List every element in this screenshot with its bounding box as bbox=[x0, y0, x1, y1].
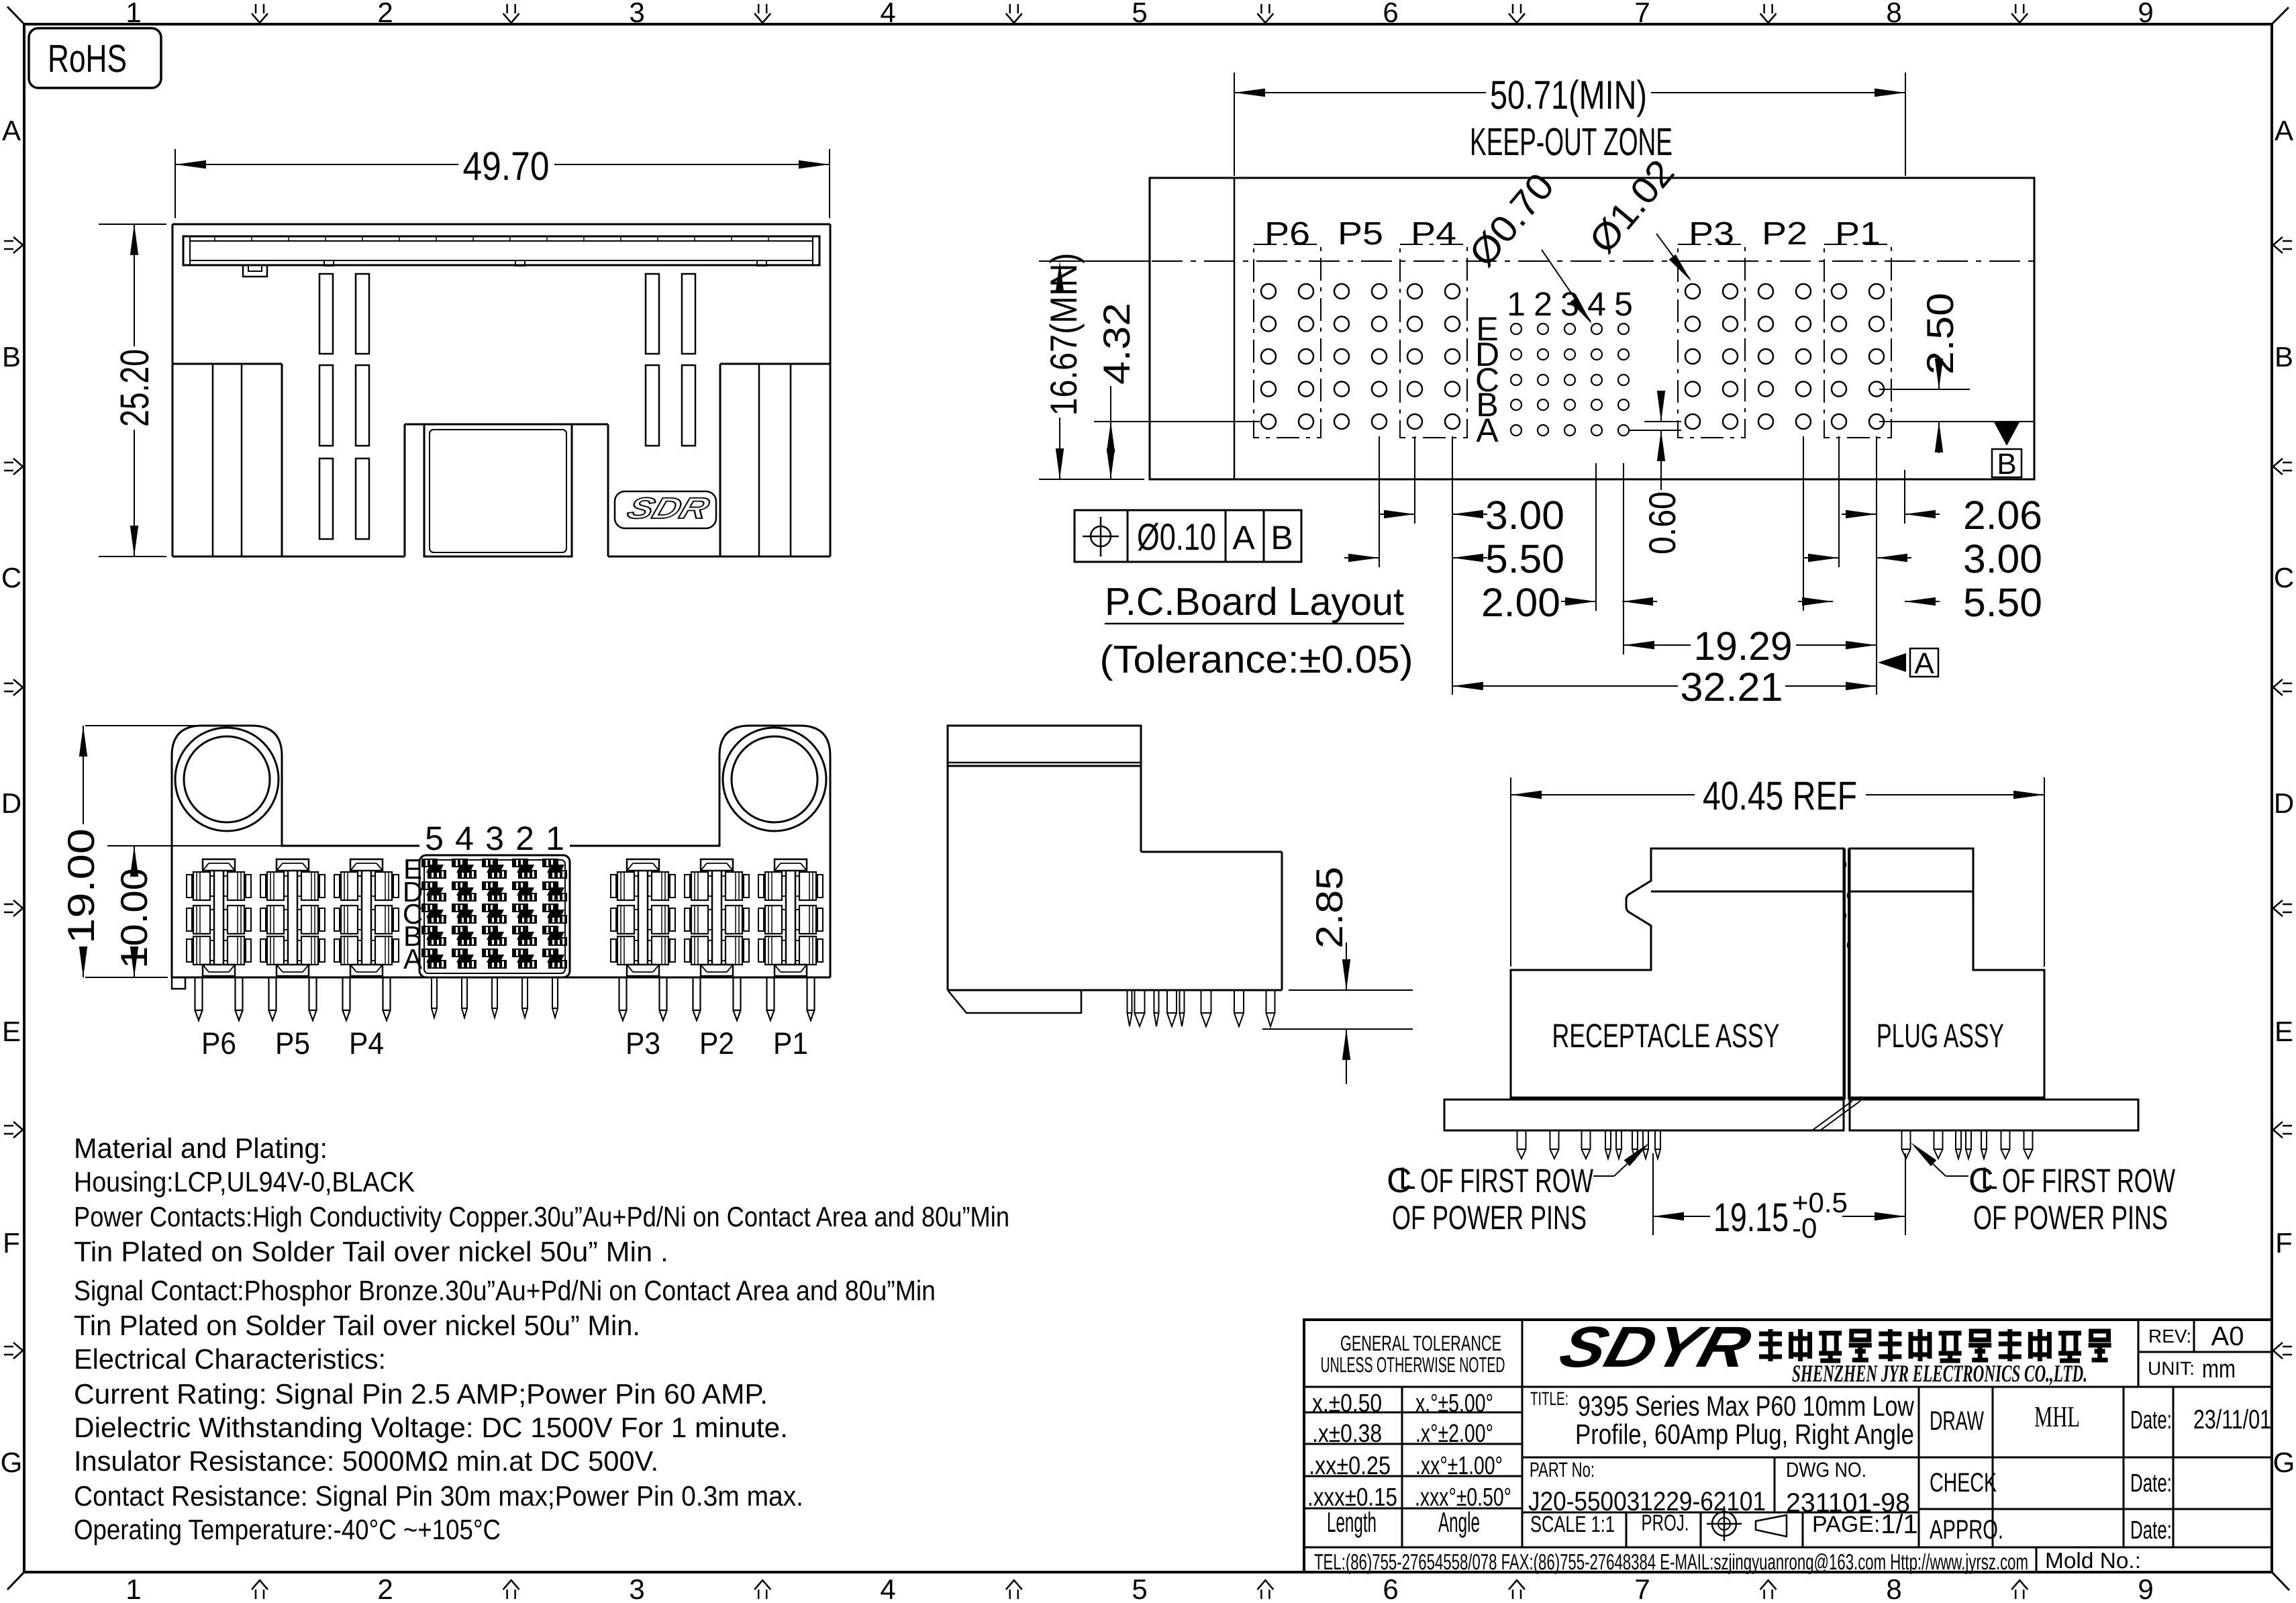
side view outline bbox=[948, 726, 1282, 1013]
svg-text:8: 8 bbox=[1886, 0, 1901, 28]
svg-text:OF FIRST ROW: OF FIRST ROW bbox=[1420, 1162, 1594, 1200]
svg-text:1: 1 bbox=[126, 1573, 141, 1603]
svg-text:5.50: 5.50 bbox=[1963, 580, 2042, 625]
svg-text:.x°±2.00°: .x°±2.00° bbox=[1415, 1420, 1493, 1448]
svg-text:23/11/01: 23/11/01 bbox=[2193, 1405, 2271, 1435]
PART No bbox=[1528, 1458, 1766, 1516]
side view pins bbox=[1128, 990, 1275, 1026]
svg-text:SCALE 1:1: SCALE 1:1 bbox=[1530, 1512, 1615, 1537]
dimension 2.85 bbox=[1262, 867, 1413, 1084]
svg-text:A: A bbox=[1476, 411, 1499, 449]
power pin group P6 holes bbox=[1254, 244, 1321, 438]
svg-text:P1: P1 bbox=[773, 1026, 808, 1061]
svg-text:PAGE:: PAGE: bbox=[1812, 1512, 1880, 1537]
svg-text:PROJ.: PROJ. bbox=[1642, 1510, 1689, 1536]
svg-text:REV:: REV: bbox=[2148, 1326, 2191, 1347]
power pin group P1 holes bbox=[1824, 244, 1891, 438]
svg-text:Insulator Resistance: 5000MΩ m: Insulator Resistance: 5000MΩ min.at DC 5… bbox=[74, 1445, 658, 1477]
svg-text:GENERAL TOLERANCE: GENERAL TOLERANCE bbox=[1340, 1331, 1501, 1355]
centerline of first row text left bbox=[1387, 1161, 1594, 1236]
svg-text:Date:: Date: bbox=[2130, 1406, 2172, 1435]
signal column labels 1-5 bbox=[1507, 285, 1633, 323]
svg-text:G: G bbox=[2273, 1447, 2295, 1478]
power pin group P2 holes bbox=[1758, 284, 1811, 429]
svg-text:4: 4 bbox=[880, 0, 895, 28]
svg-text:C: C bbox=[1, 562, 21, 593]
svg-text:1: 1 bbox=[546, 820, 564, 857]
svg-text:Housing:LCP,UL94V-0,BLACK: Housing:LCP,UL94V-0,BLACK bbox=[74, 1166, 415, 1198]
svg-text:Ø0.10: Ø0.10 bbox=[1137, 516, 1216, 558]
position tolerance feature control frame bbox=[1075, 510, 1301, 562]
dimension 40.45 REF bbox=[1511, 773, 2044, 967]
svg-text:P5: P5 bbox=[275, 1026, 310, 1061]
svg-text:2.06: 2.06 bbox=[1963, 493, 2042, 538]
svg-text:L: L bbox=[1399, 1161, 1416, 1196]
card-slot channel bar bbox=[183, 236, 819, 266]
svg-text:A0: A0 bbox=[2211, 1322, 2244, 1351]
svg-text:-0: -0 bbox=[1792, 1212, 1817, 1244]
svg-text:E: E bbox=[2275, 1016, 2293, 1047]
receptacle assy outline bbox=[1444, 848, 1844, 1130]
APPRO row bbox=[1930, 1515, 2172, 1545]
svg-text:Tin Plated on Solder Tail over: Tin Plated on Solder Tail over nickel 50… bbox=[74, 1236, 668, 1267]
svg-text:RECEPTACLE ASSY: RECEPTACLE ASSY bbox=[1552, 1017, 1780, 1055]
leader dia 1.02 bbox=[1581, 152, 1691, 281]
svg-text:L: L bbox=[1981, 1161, 1998, 1196]
svg-text:16.67(MIN): 16.67(MIN) bbox=[1042, 253, 1085, 416]
svg-text:2.85: 2.85 bbox=[1308, 867, 1350, 949]
svg-text:Electrical Characteristics:: Electrical Characteristics: bbox=[74, 1343, 386, 1375]
svg-text:B: B bbox=[2, 341, 21, 373]
svg-text:3: 3 bbox=[485, 820, 504, 857]
left mounting hole bbox=[175, 728, 279, 831]
svg-text:7: 7 bbox=[1634, 1573, 1650, 1603]
datum flag A bbox=[1878, 647, 1938, 680]
dimension 19.00 bbox=[60, 726, 201, 977]
TITLE bbox=[1530, 1388, 1915, 1450]
svg-text:Mold No.:: Mold No.: bbox=[2045, 1548, 2141, 1573]
centerline of first row text right bbox=[1968, 1161, 2176, 1236]
dimension 3.00 right bbox=[1804, 536, 2042, 581]
company name (CJK) bbox=[1759, 1329, 2111, 1361]
dimension 3.00 left bbox=[1380, 493, 1564, 538]
svg-text:E: E bbox=[2, 1016, 21, 1047]
leader left first row bbox=[1593, 1143, 1650, 1176]
svg-text:mm: mm bbox=[2202, 1355, 2236, 1383]
solder pins of P1 bbox=[767, 977, 815, 1020]
mating interface lines bbox=[1812, 848, 1860, 1130]
svg-text:P.C.Board Layout: P.C.Board Layout bbox=[1105, 580, 1404, 624]
dimension 5.50 right bbox=[1798, 580, 2042, 625]
extension line through zone bbox=[1234, 178, 1236, 479]
dimension 2.00 left bbox=[1481, 580, 1657, 625]
svg-text:2.50: 2.50 bbox=[1919, 293, 1961, 375]
svg-text:1/1: 1/1 bbox=[1881, 1510, 1918, 1539]
svg-text:B: B bbox=[1270, 519, 1293, 556]
svg-text:TEL:(86)755-27654558/078 FAX: TEL:(86)755-27654558/078 FAX:(86)755-276… bbox=[1314, 1549, 2028, 1574]
svg-text:OF POWER PINS: OF POWER PINS bbox=[1973, 1199, 2168, 1236]
svg-text:19.15: 19.15 bbox=[1713, 1195, 1789, 1240]
svg-text:DWG NO.: DWG NO. bbox=[1786, 1458, 1866, 1481]
extension lines below layout bbox=[1379, 436, 1905, 695]
svg-text:DRAW: DRAW bbox=[1930, 1406, 1984, 1436]
dimension 49.70 bbox=[175, 144, 830, 218]
svg-text:x.±0.50: x.±0.50 bbox=[1312, 1390, 1382, 1418]
svg-text:2: 2 bbox=[1534, 285, 1552, 323]
dimension 2.50 bbox=[1879, 293, 2035, 453]
signal contact block bbox=[419, 855, 570, 977]
power pin group P5 holes bbox=[1334, 284, 1387, 429]
leader right first row bbox=[1911, 1143, 1968, 1176]
latch detail under bar bbox=[243, 265, 267, 277]
svg-text:D: D bbox=[1, 787, 21, 819]
solder pins of P4 bbox=[343, 977, 391, 1020]
svg-text:x.°±5.00°: x.°±5.00° bbox=[1415, 1390, 1493, 1418]
svg-text:F: F bbox=[3, 1227, 20, 1259]
svg-text:2: 2 bbox=[377, 1573, 393, 1603]
svg-text:P3: P3 bbox=[1689, 216, 1734, 252]
tolerance table values bbox=[1307, 1390, 1511, 1538]
right mounting hole bbox=[723, 728, 826, 831]
svg-text:50.71(MIN): 50.71(MIN) bbox=[1490, 72, 1647, 117]
svg-text:A: A bbox=[403, 943, 422, 975]
svg-text:2: 2 bbox=[377, 0, 393, 28]
svg-text:P2: P2 bbox=[699, 1026, 734, 1061]
svg-text:CHECK: CHECK bbox=[1930, 1468, 1997, 1498]
svg-text:.xx±0.25: .xx±0.25 bbox=[1309, 1452, 1391, 1480]
svg-text:P5: P5 bbox=[1338, 216, 1383, 252]
signal solder pins bbox=[432, 977, 558, 1018]
SCALE row bbox=[1530, 1506, 1918, 1541]
svg-text:Power Contacts:High Conductivi: Power Contacts:High Conductivity Copper.… bbox=[74, 1201, 1009, 1232]
svg-text:25.20: 25.20 bbox=[112, 349, 157, 427]
svg-text:F: F bbox=[2275, 1227, 2293, 1259]
svg-text:.x±0.38: .x±0.38 bbox=[1312, 1420, 1382, 1448]
dimension 19.29 bbox=[1624, 624, 1877, 669]
svg-text:P2: P2 bbox=[1762, 216, 1807, 252]
svg-text:Date:: Date: bbox=[2130, 1469, 2172, 1498]
svg-text:Current Rating: Signal Pin 2.5: Current Rating: Signal Pin 2.5 AMP;Power… bbox=[74, 1378, 768, 1410]
svg-text:2: 2 bbox=[515, 820, 534, 857]
svg-text:10.00: 10.00 bbox=[113, 868, 155, 969]
dimension 16.67(MIN) bbox=[1039, 253, 1150, 480]
svg-text:4: 4 bbox=[1587, 285, 1606, 323]
svg-text:B: B bbox=[2275, 341, 2293, 373]
power contact group P1 bbox=[758, 859, 823, 976]
svg-text:3.00: 3.00 bbox=[1963, 536, 2042, 581]
front view housing outline bbox=[172, 726, 830, 989]
general tolerance header bbox=[1321, 1331, 1505, 1377]
left wall section stripes bbox=[172, 364, 282, 556]
svg-text:SDR: SDR bbox=[623, 492, 713, 525]
RoHS label bbox=[29, 28, 161, 88]
svg-text:TITLE:: TITLE: bbox=[1530, 1388, 1568, 1409]
dimension 4.32 bbox=[1094, 303, 1260, 479]
contact info row bbox=[1314, 1548, 2141, 1574]
REV cell bbox=[2148, 1322, 2244, 1351]
dimension 5.50 left bbox=[1344, 536, 1564, 581]
svg-text:Signal Contact:Phosphor Bronze: Signal Contact:Phosphor Bronze.30u”Au+Pd… bbox=[74, 1275, 936, 1306]
svg-text:5: 5 bbox=[1132, 1573, 1147, 1603]
svg-text:49.70: 49.70 bbox=[463, 144, 550, 189]
svg-text:Length: Length bbox=[1327, 1506, 1377, 1538]
svg-text:.xx°±1.00°: .xx°±1.00° bbox=[1415, 1452, 1503, 1480]
power pin group P4 holes bbox=[1400, 244, 1467, 438]
svg-text:(Tolerance:±0.05): (Tolerance:±0.05) bbox=[1100, 638, 1413, 681]
svg-text:D: D bbox=[2274, 787, 2294, 819]
solder pins of P5 bbox=[269, 977, 317, 1020]
svg-text:4.32: 4.32 bbox=[1095, 303, 1138, 385]
svg-text:UNIT:: UNIT: bbox=[2148, 1358, 2195, 1379]
svg-text:OF POWER PINS: OF POWER PINS bbox=[1392, 1199, 1587, 1236]
svg-text:19.29: 19.29 bbox=[1694, 624, 1793, 669]
signal pin hole grid bbox=[1511, 324, 1629, 436]
svg-text:6: 6 bbox=[1383, 1573, 1398, 1603]
solder pins of P6 bbox=[195, 977, 243, 1020]
svg-text:B: B bbox=[1997, 448, 2016, 481]
svg-text:OF FIRST ROW: OF FIRST ROW bbox=[2002, 1162, 2176, 1200]
DRAW row bbox=[1930, 1400, 2271, 1436]
dimension 2.06 right bbox=[1842, 493, 2042, 538]
plug assy outline bbox=[1850, 848, 2138, 1130]
keep-out zone rectangle bbox=[1150, 178, 2034, 479]
svg-text:PART No:: PART No: bbox=[1530, 1458, 1595, 1481]
svg-text:Date:: Date: bbox=[2130, 1516, 2172, 1545]
svg-text:9: 9 bbox=[2138, 0, 2153, 28]
center keying box bbox=[424, 424, 572, 556]
svg-text:APPRO.: APPRO. bbox=[1930, 1515, 2003, 1545]
signal column labels 5-1 bbox=[425, 820, 564, 857]
svg-text:Dielectric Withstanding Voltag: Dielectric Withstanding Voltage: DC 1500… bbox=[74, 1412, 788, 1443]
leader dia 0.70 bbox=[1460, 165, 1592, 324]
svg-text:P6: P6 bbox=[201, 1026, 236, 1061]
svg-text:P3: P3 bbox=[626, 1026, 660, 1061]
svg-text:P4: P4 bbox=[349, 1026, 384, 1061]
dimension 50.71(MIN) bbox=[1234, 72, 1905, 176]
SJYR logo plate bbox=[615, 491, 716, 528]
svg-text:0.60: 0.60 bbox=[1641, 491, 1683, 554]
dimension 25.20 bbox=[99, 224, 166, 556]
signal row labels E-A bbox=[403, 853, 423, 975]
svg-text:5.50: 5.50 bbox=[1485, 536, 1564, 581]
signal row labels E-A bbox=[1475, 310, 1499, 449]
datum flag B bbox=[1992, 421, 2022, 481]
svg-text:9395 Series Max P60 10mm Low: 9395 Series Max P60 10mm Low bbox=[1578, 1390, 1915, 1422]
inner slot openings bbox=[319, 274, 695, 539]
svg-text:8: 8 bbox=[1886, 1573, 1901, 1603]
svg-text:1: 1 bbox=[1507, 285, 1526, 323]
UNIT cell bbox=[2148, 1355, 2236, 1383]
dimension 0.60 bbox=[1630, 391, 1683, 554]
power contact group P2 bbox=[685, 859, 749, 976]
title block grid bbox=[1304, 1320, 2272, 1572]
svg-text:Contact Resistance: Signal Pin: Contact Resistance: Signal Pin 30m max;P… bbox=[74, 1480, 803, 1512]
solder pins of P3 bbox=[619, 977, 667, 1020]
svg-text:P1: P1 bbox=[1835, 216, 1881, 252]
horizontal centerline bbox=[1047, 260, 2034, 262]
svg-text:40.45 REF: 40.45 REF bbox=[1703, 773, 1857, 818]
DWG NO bbox=[1786, 1458, 1910, 1518]
power pin group P3 holes bbox=[1678, 244, 1745, 438]
material and electrical notes bbox=[74, 1132, 1009, 1545]
dimension 32.21 bbox=[1452, 665, 1877, 710]
plug pins bbox=[1902, 1130, 2033, 1159]
svg-text:Tin Plated on Solder Tail over: Tin Plated on Solder Tail over nickel 50… bbox=[74, 1310, 640, 1341]
svg-text:A: A bbox=[2, 115, 21, 146]
P.C.Board Layout title bbox=[1100, 580, 1413, 681]
svg-text:9: 9 bbox=[2138, 1573, 2153, 1603]
svg-text:Operating Temperature:-40°C ~+: Operating Temperature:-40°C ~+105°C bbox=[74, 1514, 501, 1545]
svg-text:1: 1 bbox=[126, 0, 141, 28]
right wall section stripes bbox=[720, 364, 830, 556]
power contact group P3 bbox=[611, 859, 675, 976]
svg-text:PLUG ASSY: PLUG ASSY bbox=[1877, 1017, 2004, 1055]
svg-text:P4: P4 bbox=[1411, 216, 1456, 252]
solder pins of P2 bbox=[693, 977, 741, 1020]
receptacle pins bbox=[1517, 1130, 1661, 1159]
svg-text:C: C bbox=[2274, 562, 2294, 593]
svg-text:RoHS: RoHS bbox=[48, 37, 127, 81]
svg-text:2.00: 2.00 bbox=[1481, 580, 1560, 625]
svg-text:4: 4 bbox=[880, 1573, 895, 1603]
svg-text:Angle: Angle bbox=[1438, 1506, 1480, 1538]
svg-text:3.00: 3.00 bbox=[1485, 493, 1564, 538]
svg-text:7: 7 bbox=[1634, 0, 1650, 28]
svg-text:P6: P6 bbox=[1264, 216, 1310, 252]
svg-text:3: 3 bbox=[629, 0, 644, 28]
svg-text:KEEP-OUT ZONE: KEEP-OUT ZONE bbox=[1470, 120, 1673, 164]
svg-text:19.00: 19.00 bbox=[60, 828, 102, 944]
power contact group P4 bbox=[334, 859, 399, 976]
svg-text:3: 3 bbox=[629, 1573, 644, 1603]
svg-text:32.21: 32.21 bbox=[1681, 665, 1783, 710]
CHECK row bbox=[1930, 1468, 2172, 1498]
svg-text:G: G bbox=[1, 1447, 23, 1478]
svg-text:5: 5 bbox=[425, 820, 444, 857]
svg-text:Profile, 60Amp Plug, Right Ang: Profile, 60Amp Plug, Right Angle bbox=[1575, 1418, 1914, 1450]
power contact group P6 bbox=[187, 859, 251, 976]
svg-text:UNLESS OTHERWISE NOTED: UNLESS OTHERWISE NOTED bbox=[1321, 1353, 1505, 1377]
power contact group P5 bbox=[260, 859, 325, 976]
svg-text:4: 4 bbox=[455, 820, 474, 857]
svg-text:Material and Plating:: Material and Plating: bbox=[74, 1132, 328, 1164]
dimension 10.00 bbox=[107, 846, 282, 977]
svg-text:SDYR: SDYR bbox=[1553, 1315, 1758, 1379]
dimension 19.15 bbox=[1653, 1153, 1905, 1244]
svg-text:A: A bbox=[1232, 519, 1255, 556]
company logo SDYR bbox=[1553, 1315, 1758, 1379]
plug side section view outline bbox=[172, 224, 830, 556]
svg-text:5: 5 bbox=[1614, 285, 1633, 323]
svg-text:6: 6 bbox=[1383, 0, 1398, 28]
svg-text:MHL: MHL bbox=[2034, 1400, 2080, 1433]
svg-text:SHENZHEN JYR ELECTRONICS CO.,L: SHENZHEN JYR ELECTRONICS CO.,LTD. bbox=[1792, 1360, 2087, 1387]
svg-text:A: A bbox=[2275, 115, 2293, 146]
svg-text:5: 5 bbox=[1132, 0, 1147, 28]
svg-text:A: A bbox=[1914, 647, 1934, 680]
